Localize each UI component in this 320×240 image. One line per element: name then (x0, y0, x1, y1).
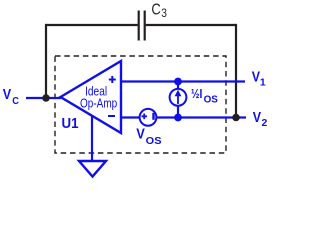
current source half-IOS circle (170, 89, 187, 106)
svg-text:Op-Amp: Op-Amp (80, 97, 117, 111)
ground symbol (79, 161, 106, 177)
op-amp U1 triangle (ideal op-amp, output at left apex) (61, 61, 122, 133)
svg-text:V: V (3, 87, 12, 103)
svg-text:C: C (12, 96, 19, 107)
node: junction dot on V1 line (174, 78, 182, 86)
svg-text:3: 3 (161, 8, 167, 20)
svg-text:U1: U1 (62, 116, 79, 132)
capacitor C3 right plate (144, 11, 146, 41)
wire: top horizontal right segment (capacitor C3 right plate to right corner) (146, 24, 236, 26)
svg-text:V: V (136, 126, 145, 142)
node VC junction dot (42, 94, 50, 102)
capacitor C3 left plate (138, 11, 140, 41)
svg-text:C: C (151, 2, 160, 19)
op-amp plus input marker (109, 76, 116, 83)
svg-text:OS: OS (146, 136, 162, 147)
VOS minus bar (152, 113, 154, 120)
op-amp minus input marker (108, 115, 115, 117)
svg-text:2: 2 (262, 118, 268, 129)
VOS plus sign (142, 114, 148, 120)
wire: left vertical segment (top corner down to node VC) (45, 24, 47, 98)
wire: minus input lead to VOS source (121, 116, 140, 118)
wire: plus input to V1 line (121, 80, 245, 82)
wire: VC lead into op-amp output (26, 97, 61, 99)
wire: current source top stem (177, 82, 179, 90)
svg-text:1: 1 (260, 77, 266, 88)
dashed box (op-amp model boundary) (55, 56, 226, 153)
wire: VOS source to V2 line (156, 116, 246, 118)
wire: right vertical segment (top corner down to node V2) (235, 24, 237, 118)
voltage source VOS circle (140, 109, 157, 126)
wire: top horizontal left segment (node VC to capacitor C3 left plate) (46, 24, 138, 26)
svg-text:OS: OS (204, 95, 219, 106)
current source arrow (pointing up) (177, 94, 179, 104)
svg-text:V: V (253, 110, 262, 126)
node: black junction dot on V2 line (cap feedback) (232, 114, 240, 122)
wire: ground stem from op-amp (91, 116, 93, 161)
svg-text:½I: ½I (191, 86, 202, 101)
wire: current source bottom stem (177, 106, 179, 118)
node: junction dot on V2 line (174, 114, 182, 122)
